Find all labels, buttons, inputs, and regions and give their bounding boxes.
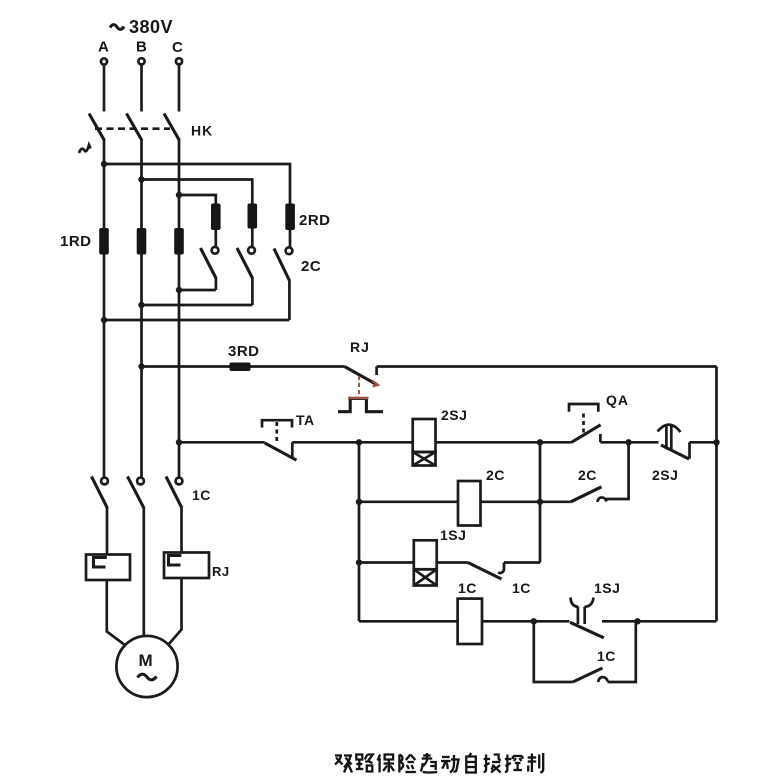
fuse 2RD (A branch) bbox=[285, 204, 295, 231]
wire line3 seg2 bbox=[481, 500, 571, 503]
wire control line1 left bbox=[142, 365, 345, 368]
svg-text:2SJ: 2SJ bbox=[652, 467, 678, 483]
svg-text:1C: 1C bbox=[458, 580, 477, 596]
wire line5 seg3 bbox=[602, 620, 717, 623]
contact QA blade bbox=[572, 425, 601, 443]
wire fuse to contact bbox=[251, 229, 254, 247]
node phase B / branch bbox=[138, 176, 144, 182]
thermal element RJ (A) bbox=[86, 555, 130, 581]
node phase C / branch bbox=[176, 192, 182, 198]
terminal A bbox=[101, 58, 107, 64]
label ~380V bbox=[110, 17, 173, 37]
wire phase A mid bbox=[103, 140, 106, 478]
contact 2SJ stem bbox=[666, 425, 671, 450]
contact 2C fixed (C branch) bbox=[212, 247, 219, 254]
contact 2C fixed (B branch) bbox=[248, 247, 255, 254]
node return B bbox=[138, 302, 144, 308]
contact TA fixed stub bbox=[291, 442, 294, 457]
svg-text:1SJ: 1SJ bbox=[440, 527, 466, 543]
svg-text:2SJ: 2SJ bbox=[441, 407, 467, 423]
fuse 1RD phase C bbox=[174, 228, 184, 255]
node right rail / line2 bbox=[713, 439, 719, 445]
svg-text:2C: 2C bbox=[578, 467, 597, 483]
svg-text:M: M bbox=[139, 651, 153, 670]
contact 1C NO fixed (arc) bbox=[598, 677, 607, 682]
motor M bbox=[116, 636, 177, 697]
wire control line1 right bbox=[377, 365, 717, 368]
heater loop (A) bbox=[94, 558, 107, 568]
wire 1C branch left bbox=[534, 621, 573, 682]
wire line2 seg5 bbox=[690, 441, 717, 444]
handwritten mark bbox=[79, 145, 91, 153]
svg-text:380V: 380V bbox=[129, 17, 173, 37]
node line2/branch2C bbox=[625, 439, 631, 445]
fuse 2RD (C branch) bbox=[211, 204, 221, 231]
node line1 tap (phase B) bbox=[138, 363, 144, 369]
wire branch B top bbox=[142, 180, 253, 205]
contact 2SJ (delayed) dome bbox=[658, 425, 681, 432]
switch HK link (dashed) bbox=[95, 127, 170, 130]
switch HK blade C bbox=[164, 114, 179, 141]
node bus1 / line3 bbox=[537, 499, 543, 505]
svg-text:RJ: RJ bbox=[212, 564, 230, 579]
svg-text:1C: 1C bbox=[597, 648, 616, 664]
left rail bbox=[358, 442, 361, 621]
wire fuse to contact bbox=[289, 230, 292, 247]
wire line5 seg2 bbox=[482, 620, 569, 623]
wire line4 seg1 bbox=[359, 561, 414, 564]
terminal B bbox=[138, 58, 144, 64]
contact 1C NO blade bbox=[573, 668, 603, 682]
thermal element RJ (C) bbox=[164, 553, 209, 579]
RJ heater bump bbox=[338, 398, 383, 411]
contact 1SJ stem bbox=[578, 607, 585, 624]
svg-text:2C: 2C bbox=[486, 467, 505, 483]
contact 2SJ blade bbox=[661, 445, 689, 459]
contact 2C blade bbox=[571, 487, 602, 502]
svg-text:RJ: RJ bbox=[350, 339, 370, 355]
coil 2SJ bbox=[413, 419, 436, 452]
contact 2SJ fixed stub bbox=[688, 442, 691, 459]
svg-text:2C: 2C bbox=[301, 258, 321, 275]
bus1 vertical bbox=[539, 442, 542, 562]
contact QA fixed stub bbox=[599, 434, 602, 442]
right rail bbox=[715, 367, 718, 622]
node line5 / branch bbox=[531, 618, 537, 624]
svg-text:TA: TA bbox=[296, 412, 315, 428]
wire branch A top bbox=[104, 164, 290, 205]
contact 1C NC fixed hook bbox=[498, 563, 504, 574]
contact 2C fixed (arc) bbox=[598, 497, 607, 502]
pushbutton TA link (dashed) bbox=[275, 422, 278, 441]
fuse 1RD phase B bbox=[137, 228, 147, 255]
contact 2C blade (B branch) bbox=[237, 248, 252, 278]
wire phase A lower bbox=[106, 507, 109, 554]
wire phase A upper bbox=[103, 65, 106, 112]
node left rail / line4 bbox=[356, 559, 362, 565]
svg-text:1C: 1C bbox=[192, 487, 211, 503]
RJ heater bar (red) bbox=[348, 397, 369, 399]
fuse 2RD (B branch) bbox=[248, 204, 258, 229]
wire branch C return bbox=[179, 289, 216, 292]
pushbutton TA actuator bbox=[262, 420, 292, 427]
contact 2C blade (A branch) bbox=[274, 249, 289, 281]
wire branch C top bbox=[179, 195, 216, 205]
pushbutton QA link (dashed) bbox=[582, 414, 585, 434]
RJ linkage (red dashed) bbox=[358, 376, 360, 396]
node phase A / branch bbox=[101, 161, 107, 167]
node line5 / branch right bbox=[634, 618, 640, 624]
svg-text:1C: 1C bbox=[512, 580, 531, 596]
contactor 1C fixed A bbox=[101, 478, 108, 485]
wire phase C mid bbox=[178, 140, 181, 478]
fuse 1RD phase A bbox=[99, 228, 109, 255]
wire contact down bbox=[215, 277, 218, 290]
wire line4 seg2 bbox=[437, 561, 468, 564]
svg-text:C: C bbox=[172, 39, 183, 56]
svg-text:3RD: 3RD bbox=[228, 343, 260, 360]
node left rail / line2 bbox=[356, 439, 362, 445]
contact 1C NC blade bbox=[468, 563, 502, 580]
wire contact down bbox=[251, 277, 254, 305]
title 双路保险起动自投控制 (drawn strokes) bbox=[335, 753, 543, 773]
wire line5 seg1 bbox=[359, 620, 458, 623]
node line2 tap (phase C) bbox=[176, 439, 182, 445]
svg-text:2RD: 2RD bbox=[299, 212, 331, 229]
wire phase C upper bbox=[178, 65, 181, 112]
contact TA blade bbox=[265, 443, 297, 460]
wire phase C lower bbox=[180, 507, 183, 552]
contactor 1C blade C bbox=[166, 477, 182, 508]
pushbutton QA actuator bbox=[569, 404, 598, 412]
wire to motor (A) bbox=[107, 580, 126, 646]
wire line2 seg2 bbox=[292, 441, 412, 444]
node left rail / line3 bbox=[356, 499, 362, 505]
wire branch B return bbox=[142, 304, 253, 307]
node bus1 / line2 bbox=[537, 439, 543, 445]
wire phase B lower bbox=[142, 507, 145, 636]
contactor 1C blade B bbox=[128, 477, 144, 508]
coil 1SJ bbox=[414, 540, 437, 569]
contactor 1C fixed B bbox=[137, 478, 144, 485]
wire 1C branch right bbox=[608, 621, 636, 682]
contact 1SJ blade bbox=[570, 622, 604, 638]
wire branch A return bbox=[104, 319, 289, 322]
contactor 1C blade A bbox=[92, 477, 108, 508]
wire line4 seg3 bbox=[504, 561, 540, 564]
heater loop (C) bbox=[169, 556, 182, 566]
terminal C bbox=[176, 58, 182, 64]
node return A bbox=[101, 317, 107, 323]
node return C bbox=[176, 287, 182, 293]
switch HK blade B bbox=[127, 114, 142, 141]
wire phase B mid bbox=[140, 140, 143, 478]
wire line2 seg4 bbox=[600, 441, 658, 444]
wire line3 seg1 bbox=[359, 500, 458, 503]
wire fuse to contact bbox=[214, 230, 217, 247]
svg-text:QA: QA bbox=[606, 392, 629, 408]
contact 1SJ (delayed) cup bbox=[571, 598, 579, 607]
contactor 1C fixed C bbox=[176, 478, 183, 485]
svg-text:B: B bbox=[136, 39, 147, 56]
contact 2C blade (C branch) bbox=[201, 248, 216, 278]
switch HK blade A bbox=[89, 114, 104, 141]
svg-text:HK: HK bbox=[191, 123, 213, 139]
wire line2 seg1 bbox=[179, 441, 265, 444]
wire contact down bbox=[288, 280, 291, 321]
contact RJ arrow tip (red) bbox=[372, 381, 378, 387]
wire line2 seg3 bbox=[436, 441, 572, 444]
wire to motor (C) bbox=[169, 578, 182, 644]
wire up to line2 bbox=[606, 442, 628, 499]
fuse 3RD bbox=[230, 363, 251, 372]
contact 2C fixed (A branch) bbox=[286, 247, 293, 254]
coil 1C bbox=[458, 599, 482, 644]
svg-text:1SJ: 1SJ bbox=[594, 580, 620, 596]
contact RJ blade bbox=[345, 367, 378, 386]
contact RJ fixed stub bbox=[375, 367, 378, 376]
coil 2C bbox=[458, 481, 481, 526]
svg-text:A: A bbox=[98, 39, 109, 56]
svg-text:1RD: 1RD bbox=[60, 233, 92, 250]
wire phase B upper bbox=[140, 65, 143, 112]
